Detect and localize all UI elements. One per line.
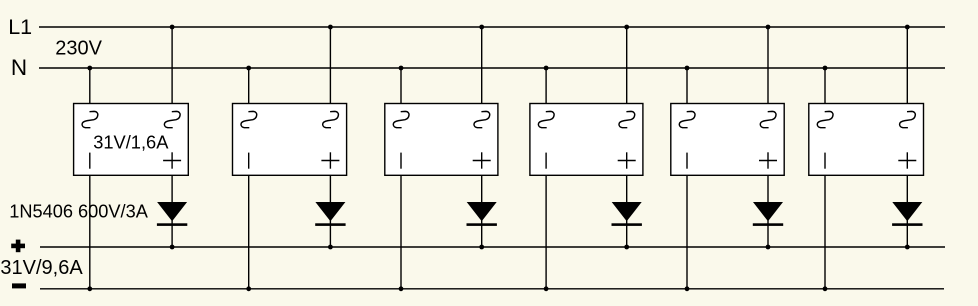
junction PS6 on minus bus bbox=[823, 286, 828, 291]
net label + bbox=[11, 240, 25, 253]
svg-text:230V: 230V bbox=[55, 37, 102, 59]
wire PS2 DC+ terminal through D2 to plus bus bbox=[329, 175, 331, 247]
power supply PS6 bbox=[809, 104, 924, 176]
svg-text:31V/1,6A: 31V/1,6A bbox=[93, 131, 169, 152]
wire PS6 DC- terminal to minus bus bbox=[824, 175, 826, 288]
wire PS6 DC+ terminal through D6 to plus bus bbox=[906, 175, 908, 247]
svg-text:N: N bbox=[11, 55, 27, 80]
power supply PS4 bbox=[530, 104, 643, 176]
wire PS5 AC-R terminal to L1 bbox=[767, 27, 769, 104]
junction PS2 on L1 bbox=[328, 25, 333, 30]
junction PS2 on N bbox=[246, 66, 251, 71]
svg-text:L1: L1 bbox=[8, 15, 32, 39]
junction D6 on plus bus bbox=[905, 245, 910, 250]
diode D3 bbox=[467, 202, 497, 226]
junction PS1 on N bbox=[87, 66, 92, 71]
junction D4 on plus bus bbox=[624, 245, 629, 250]
junction D2 on plus bus bbox=[328, 245, 333, 250]
wire PS3 DC+ terminal through D3 to plus bus bbox=[481, 175, 483, 247]
junction D3 on plus bus bbox=[479, 245, 484, 250]
net label - bbox=[12, 283, 26, 288]
wire N bus bbox=[39, 67, 945, 69]
power supply PS5 bbox=[671, 104, 784, 176]
wire L1 bus bbox=[39, 26, 945, 28]
junction D1 on plus bus bbox=[170, 245, 175, 250]
wire PS4 AC-L terminal to N bbox=[545, 68, 547, 104]
wire PS1 AC-R terminal to L1 bbox=[171, 27, 173, 104]
junction D5 on plus bus bbox=[766, 245, 771, 250]
junction PS1 on L1 bbox=[170, 25, 175, 30]
power supply PS2 bbox=[233, 104, 347, 176]
wire PS6 AC-L terminal to N bbox=[824, 68, 826, 104]
svg-text:1N5406 600V/3A: 1N5406 600V/3A bbox=[9, 202, 148, 222]
wire + bus bbox=[40, 246, 945, 248]
junction PS5 on minus bus bbox=[685, 286, 690, 291]
wire PS3 DC- terminal to minus bus bbox=[400, 175, 402, 288]
junction PS6 on N bbox=[823, 66, 828, 71]
junction PS4 on minus bus bbox=[544, 286, 549, 291]
junction PS1 on minus bus bbox=[87, 286, 92, 291]
svg-text:31V/9,6A: 31V/9,6A bbox=[0, 257, 83, 279]
diode D4 bbox=[612, 202, 642, 226]
wire PS4 DC- terminal to minus bus bbox=[545, 175, 547, 288]
power supply PS3 bbox=[385, 104, 498, 176]
wire PS1 DC- terminal to minus bus bbox=[89, 175, 91, 288]
wire PS2 AC-R terminal to L1 bbox=[329, 27, 331, 104]
wire PS5 AC-L terminal to N bbox=[686, 68, 688, 104]
junction PS3 on N bbox=[399, 66, 404, 71]
diode D6 bbox=[892, 202, 922, 226]
junction PS6 on L1 bbox=[905, 25, 910, 30]
junction PS4 on N bbox=[544, 66, 549, 71]
wire PS4 DC+ terminal through D4 to plus bus bbox=[626, 175, 628, 247]
wire PS2 DC- terminal to minus bus bbox=[248, 175, 250, 288]
wire PS1 DC+ terminal through D1 to plus bus bbox=[171, 175, 173, 247]
wire PS2 AC-L terminal to N bbox=[248, 68, 250, 104]
diode D1 bbox=[157, 202, 187, 226]
diode D5 bbox=[753, 202, 783, 226]
wire PS6 AC-R terminal to L1 bbox=[906, 27, 908, 104]
wire PS5 DC+ terminal through D5 to plus bus bbox=[767, 175, 769, 247]
wire PS1 AC-L terminal to N bbox=[89, 68, 91, 104]
junction PS3 on minus bus bbox=[399, 286, 404, 291]
wire PS4 AC-R terminal to L1 bbox=[626, 27, 628, 104]
wire PS5 DC- terminal to minus bus bbox=[686, 175, 688, 288]
junction PS4 on L1 bbox=[624, 25, 629, 30]
wire PS3 AC-L terminal to N bbox=[400, 68, 402, 104]
junction PS2 on minus bus bbox=[246, 286, 251, 291]
junction PS5 on N bbox=[685, 66, 690, 71]
junction PS5 on L1 bbox=[766, 25, 771, 30]
diode D2 bbox=[315, 202, 345, 226]
power supply PS1 bbox=[74, 104, 189, 176]
junction PS3 on L1 bbox=[479, 25, 484, 30]
wire - bus bbox=[40, 288, 944, 290]
wire PS3 AC-R terminal to L1 bbox=[481, 27, 483, 104]
